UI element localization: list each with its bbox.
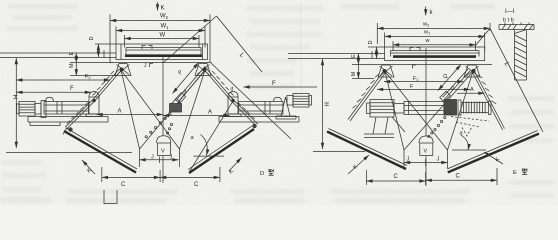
svg-text:M: M [69, 63, 75, 68]
leader to apex from deck [475, 28, 490, 46]
feed spout lines [0, 52, 116, 54]
svg-text:d: d [451, 86, 454, 92]
left hatched strut [93, 69, 121, 101]
svg-text:A: A [118, 109, 122, 115]
left chute plate [327, 132, 406, 170]
svg-text:a: a [460, 131, 463, 137]
left pivot pin [383, 69, 386, 72]
right suspension pivot plate [464, 65, 480, 77]
feed spout lines [288, 53, 385, 55]
dim F line left [16, 91, 91, 93]
section mark above deck [410, 48, 420, 52]
right suspension pivot plate [195, 64, 211, 76]
svg-text:F: F [70, 86, 74, 92]
left chute back edge [66, 128, 137, 169]
svg-text:w1: w1 [423, 30, 431, 36]
left chute plate [64, 131, 136, 173]
right chute hanger link [232, 100, 258, 128]
svg-text:H: H [14, 95, 20, 99]
trough rim verticals [125, 48, 127, 56]
heavy screen deck [393, 55, 476, 58]
drive link P [171, 63, 208, 108]
motor mounting bracket [364, 117, 405, 138]
dim D bracket [376, 47, 378, 59]
heavy screen deck [125, 54, 202, 57]
dim C line left [102, 176, 160, 178]
svg-text:M: M [351, 72, 357, 77]
svg-text:J: J [151, 155, 154, 161]
dim w extensions [392, 41, 394, 51]
svg-text:b t b: b t b [503, 18, 514, 24]
svg-text:J: J [170, 155, 173, 161]
dim W2 extension lines [109, 15, 111, 63]
svg-text:A: A [470, 87, 474, 93]
svg-text:F: F [272, 81, 276, 87]
drive tube housing [404, 102, 444, 115]
body bottom chord [377, 64, 492, 66]
discharge box bottom [104, 190, 117, 204]
V discharge gate [157, 136, 171, 156]
leader to apex from deck [164, 16, 217, 62]
leader L diagonal [217, 16, 263, 72]
dim k stroke-direction arrow [425, 7, 427, 16]
M reference lines [70, 62, 113, 64]
dim F1 line [384, 81, 464, 83]
suspension chain to V gate [145, 112, 173, 137]
svg-text:E: E [69, 52, 75, 56]
right chute back edge [447, 131, 538, 170]
svg-text:W1: W1 [161, 24, 170, 30]
leg X brace 1 [121, 70, 180, 149]
labels for left view [14, 6, 277, 189]
dim E bracket [75, 53, 77, 63]
dim J line [140, 159, 179, 161]
K pointer right chute [229, 158, 242, 172]
right chute plate [448, 134, 539, 173]
coupling [394, 104, 404, 114]
right base plate [219, 114, 299, 122]
faint table rule bleed [300, 2, 302, 92]
left base plate [28, 114, 108, 126]
kanji for D-type [268, 169, 273, 175]
feed spout step [103, 50, 105, 58]
left arm pivot housing [89, 92, 99, 115]
label J1 under deck [413, 65, 417, 69]
section web [515, 30, 527, 81]
svg-text:F2: F2 [85, 74, 91, 80]
dim W1 extension [115, 27, 117, 45]
left arm tube [44, 102, 89, 115]
motor (inside mounted) [367, 100, 395, 118]
right dome cap [274, 97, 282, 101]
svg-text:J: J [407, 157, 410, 163]
right pivot pin [472, 69, 475, 72]
left pivot pin [120, 68, 123, 71]
J hanger drop right [447, 150, 449, 168]
leader L diagonal to section [490, 28, 543, 132]
H base reference line [313, 151, 365, 153]
trough rim verticals [390, 51, 392, 57]
section mark above deck [142, 46, 152, 50]
J hanger drop left [403, 150, 405, 168]
suspension chain to V gate [428, 116, 446, 137]
right coupling [287, 96, 293, 106]
dim w1 extensions [384, 33, 386, 48]
dim w2 line [377, 27, 490, 29]
trough box outline [116, 44, 208, 60]
right arm tube [239, 102, 284, 115]
svg-text:V: V [424, 149, 428, 155]
svg-text:A: A [208, 110, 212, 116]
feed spout step [371, 51, 373, 59]
label J1 under deck [150, 64, 154, 68]
svg-text:E: E [351, 54, 357, 58]
K pointer left chute [348, 155, 369, 174]
svg-text:W2: W2 [160, 14, 169, 20]
dim H line [15, 58, 17, 148]
svg-text:D: D [260, 171, 264, 177]
dim W1 line [116, 30, 205, 32]
right chute plate [189, 129, 254, 173]
leg V chord right [180, 70, 206, 149]
K pointer right chute [484, 152, 503, 164]
svg-text:d: d [231, 87, 234, 93]
centre line [162, 57, 164, 136]
K pointer left chute [82, 160, 95, 174]
svg-text:E: E [513, 170, 517, 176]
drive link Q [438, 65, 470, 102]
dim J line [404, 162, 448, 164]
dim C line right [160, 176, 220, 178]
svg-text:I—I: I—I [505, 9, 515, 15]
right hatched strut [205, 69, 233, 101]
svg-text:H: H [325, 102, 331, 106]
angle a reference line [452, 149, 486, 151]
svg-text:C: C [456, 174, 461, 180]
dim A line right [163, 115, 230, 117]
flange hatch [502, 25, 533, 30]
dim w line [393, 44, 476, 46]
J hanger drop left [139, 149, 141, 167]
dim w2 extensions [376, 23, 378, 44]
trough rim lines [391, 50, 480, 52]
dim W line [125, 38, 200, 40]
leg X brace 2 [404, 72, 473, 151]
svg-text:C: C [394, 174, 399, 180]
dim C extension lines [365, 170, 367, 185]
svg-text:a: a [191, 135, 194, 141]
right chute long hanger [211, 63, 291, 139]
M reference lines [352, 64, 377, 66]
left dome cap [46, 97, 54, 101]
left hatched outer leg [348, 71, 386, 121]
right vibrator motor [293, 94, 312, 108]
svg-text:W: W [160, 33, 166, 39]
svg-text:D: D [89, 37, 95, 41]
right pivot pin [203, 68, 206, 71]
leg V chord left [121, 70, 140, 149]
counterweight block [170, 104, 182, 113]
left arm tube inner lines [44, 102, 89, 115]
J centre tick [159, 157, 161, 164]
dim K stroke-direction arrow [157, 2, 159, 11]
svg-text:w2: w2 [422, 22, 430, 28]
svg-text:K: K [161, 6, 165, 12]
svg-text:F1: F1 [413, 76, 419, 82]
left suspension pivot plate [378, 65, 394, 77]
dim F line right [244, 86, 318, 88]
centre line [425, 48, 427, 136]
b t b ticks [505, 23, 529, 26]
svg-text:d: d [184, 90, 187, 96]
svg-text:C: C [121, 182, 126, 188]
dim C extension lines [101, 167, 103, 182]
right hatched outer leg [472, 71, 504, 130]
dim F line [377, 88, 470, 90]
eccentric bearing block [444, 100, 457, 116]
angle a arc [201, 135, 208, 156]
svg-text:C: C [194, 182, 199, 188]
right chute inner hanger [190, 101, 234, 172]
dim C line left [366, 180, 425, 182]
section labels [503, 9, 515, 24]
kanji for E-type [522, 168, 527, 174]
svg-text:V: V [161, 149, 165, 155]
dim H line [322, 59, 324, 149]
dim E bracket [357, 54, 359, 65]
left vibrator motor [17, 102, 36, 117]
svg-text:D: D [368, 41, 374, 45]
H base reference line [6, 152, 132, 154]
left bearing stand [41, 101, 46, 118]
right arm pivot housing [228, 92, 238, 115]
V discharge gate [419, 136, 433, 156]
left chute back edge [329, 129, 408, 166]
trough rim lines [126, 47, 201, 49]
svg-text:J: J [437, 157, 440, 163]
section flange [499, 25, 534, 30]
dim W extension [124, 35, 126, 48]
body bottom chord [110, 62, 212, 64]
dashed chain curtain [451, 117, 489, 137]
leg X brace 1 [385, 72, 448, 151]
right arm tube inner lines [239, 102, 284, 115]
right chute back edge [188, 126, 252, 170]
dim M bracket [75, 63, 77, 76]
right bearing trestle [276, 97, 296, 119]
trough box outline [385, 47, 485, 61]
dim D bracket [97, 44, 99, 57]
angle a arc [461, 135, 468, 150]
leg V chord left [385, 72, 404, 151]
dim A line [457, 92, 485, 94]
dim W2 line [110, 20, 210, 22]
dim A line left [97, 114, 164, 116]
web hatch [515, 30, 527, 78]
dim M bracket [357, 65, 359, 79]
left suspension pivot plate [115, 64, 131, 76]
angle a reference line [193, 155, 224, 157]
left chute hanger link [65, 100, 94, 131]
dim C line right [426, 179, 497, 181]
left coupling [35, 104, 41, 115]
dim F2 line [16, 79, 110, 81]
labels for right view [325, 10, 517, 180]
leg X brace 2 [140, 70, 206, 149]
J hanger drop right [179, 149, 181, 167]
svg-text:w: w [425, 38, 430, 44]
J centre tick [425, 159, 427, 166]
reaction coil spring [458, 100, 491, 115]
dim w1 line [385, 35, 485, 37]
leg V chord right [448, 72, 474, 151]
